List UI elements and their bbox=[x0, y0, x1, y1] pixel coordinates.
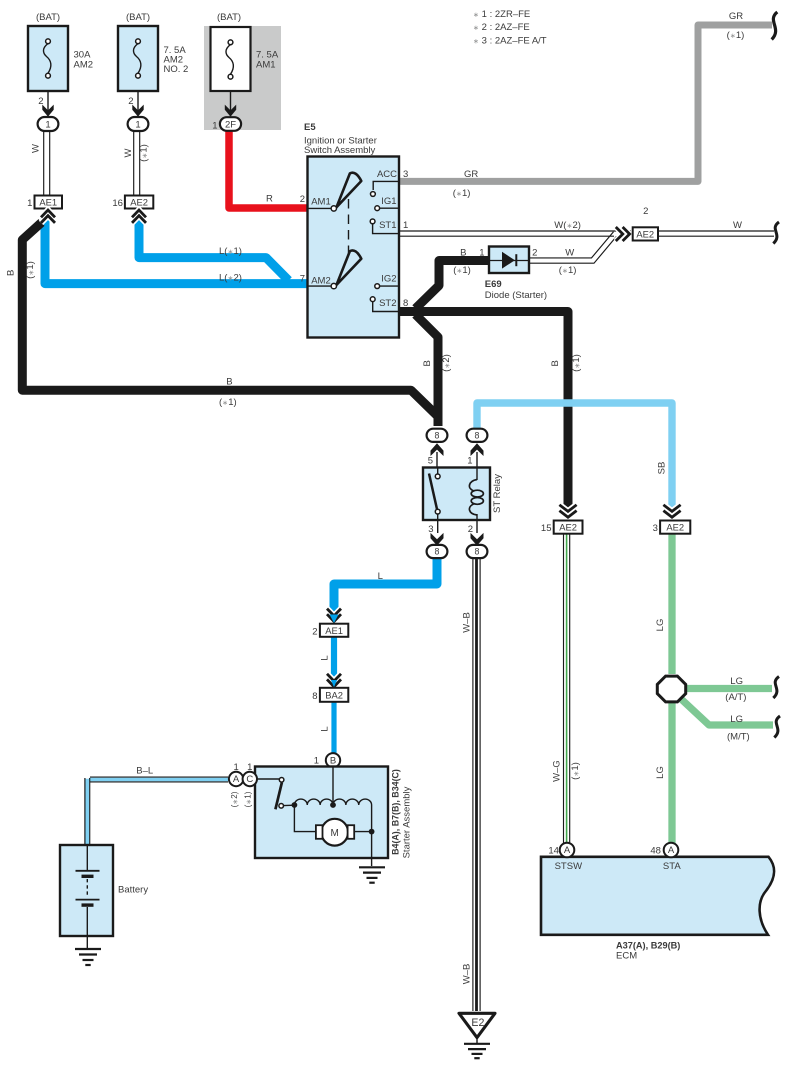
svg-text:8: 8 bbox=[435, 547, 440, 557]
svg-text:E5: E5 bbox=[304, 122, 316, 133]
svg-text:AM1: AM1 bbox=[256, 60, 276, 71]
svg-text:W: W bbox=[733, 220, 742, 231]
svg-text:AM2: AM2 bbox=[74, 60, 94, 71]
svg-text:M: M bbox=[331, 828, 339, 839]
svg-text:W–G: W–G bbox=[551, 760, 562, 782]
svg-text:(∗1): (∗1) bbox=[559, 265, 577, 276]
svg-text:3: 3 bbox=[403, 169, 408, 180]
svg-text:AM2: AM2 bbox=[311, 276, 331, 287]
svg-text:16: 16 bbox=[112, 198, 123, 209]
svg-text:AE2: AE2 bbox=[666, 522, 684, 533]
svg-text:LG: LG bbox=[655, 619, 666, 632]
svg-text:(M/T): (M/T) bbox=[727, 732, 750, 743]
svg-text:7: 7 bbox=[300, 274, 305, 285]
svg-text:(∗1): (∗1) bbox=[727, 30, 745, 41]
svg-text:15: 15 bbox=[541, 523, 552, 534]
svg-text:2: 2 bbox=[643, 206, 648, 217]
svg-text:(∗1): (∗1) bbox=[571, 354, 582, 372]
svg-text:1: 1 bbox=[314, 755, 319, 766]
svg-text:2F: 2F bbox=[225, 119, 236, 130]
svg-text:∗ 1 : 2ZR–FE: ∗ 1 : 2ZR–FE bbox=[473, 9, 530, 20]
svg-text:(∗1): (∗1) bbox=[453, 188, 471, 199]
svg-text:AE2: AE2 bbox=[130, 196, 148, 207]
svg-text:W–B: W–B bbox=[462, 612, 473, 633]
svg-text:2: 2 bbox=[128, 96, 133, 107]
svg-text:STA: STA bbox=[663, 861, 681, 872]
svg-text:ST1: ST1 bbox=[379, 220, 396, 231]
svg-text:8: 8 bbox=[435, 430, 440, 440]
svg-text:W: W bbox=[31, 144, 42, 153]
svg-text:(∗1): (∗1) bbox=[219, 397, 237, 408]
svg-text:(BAT): (BAT) bbox=[36, 12, 60, 23]
svg-text:AE1: AE1 bbox=[39, 196, 57, 207]
svg-text:5: 5 bbox=[428, 456, 433, 467]
svg-text:SB: SB bbox=[657, 462, 668, 475]
svg-text:L: L bbox=[378, 571, 383, 582]
svg-text:A37(A), B29(B): A37(A), B29(B) bbox=[616, 940, 680, 950]
svg-text:BA2: BA2 bbox=[325, 690, 343, 701]
svg-text:B: B bbox=[422, 360, 433, 366]
svg-text:W(∗2): W(∗2) bbox=[554, 220, 581, 231]
svg-text:B–L: B–L bbox=[136, 765, 153, 776]
svg-text:48: 48 bbox=[650, 845, 661, 856]
svg-text:ST2: ST2 bbox=[379, 298, 396, 309]
svg-text:(∗1): (∗1) bbox=[244, 791, 253, 807]
svg-text:8: 8 bbox=[475, 547, 480, 557]
svg-text:(∗2): (∗2) bbox=[230, 791, 239, 807]
svg-text:AE2: AE2 bbox=[636, 228, 654, 239]
svg-text:(∗1): (∗1) bbox=[25, 261, 36, 279]
svg-text:W–B: W–B bbox=[462, 964, 473, 985]
svg-text:1: 1 bbox=[479, 248, 484, 259]
svg-text:L: L bbox=[319, 655, 330, 660]
svg-text:C: C bbox=[246, 774, 253, 785]
svg-text:GR: GR bbox=[464, 169, 478, 180]
svg-text:L(∗2): L(∗2) bbox=[219, 272, 242, 283]
svg-text:Diode (Starter): Diode (Starter) bbox=[485, 290, 547, 301]
svg-text:IG1: IG1 bbox=[381, 196, 396, 207]
svg-text:L(∗1): L(∗1) bbox=[219, 246, 242, 257]
svg-text:2: 2 bbox=[38, 96, 43, 107]
svg-text:Battery: Battery bbox=[118, 884, 148, 895]
svg-text:(∗2): (∗2) bbox=[441, 354, 452, 372]
svg-text:1: 1 bbox=[247, 762, 252, 773]
svg-text:GR: GR bbox=[729, 11, 743, 22]
svg-text:∗ 2 : 2AZ–FE: ∗ 2 : 2AZ–FE bbox=[473, 22, 530, 33]
svg-text:2: 2 bbox=[532, 248, 537, 259]
svg-text:3: 3 bbox=[428, 524, 433, 535]
svg-text:B: B bbox=[550, 360, 561, 366]
svg-text:B: B bbox=[5, 270, 16, 276]
svg-text:8: 8 bbox=[312, 691, 317, 702]
svg-text:2: 2 bbox=[300, 194, 305, 205]
svg-text:ECM: ECM bbox=[616, 950, 637, 961]
svg-text:W: W bbox=[565, 248, 574, 259]
svg-text:A: A bbox=[233, 774, 240, 785]
svg-text:(∗1): (∗1) bbox=[139, 144, 150, 162]
svg-text:ACC: ACC bbox=[377, 169, 397, 180]
svg-text:(A/T): (A/T) bbox=[725, 692, 746, 703]
svg-text:1: 1 bbox=[135, 119, 140, 130]
svg-text:∗ 3 : 2AZ–FE A/T: ∗ 3 : 2AZ–FE A/T bbox=[473, 35, 547, 46]
svg-text:Switch Assembly: Switch Assembly bbox=[304, 145, 376, 156]
svg-text:R: R bbox=[266, 194, 273, 205]
svg-text:IG2: IG2 bbox=[381, 273, 396, 284]
svg-text:8: 8 bbox=[403, 298, 408, 309]
svg-text:1: 1 bbox=[27, 198, 32, 209]
svg-text:1: 1 bbox=[403, 220, 408, 231]
svg-text:(∗1): (∗1) bbox=[570, 762, 581, 780]
svg-text:NO. 2: NO. 2 bbox=[164, 64, 189, 75]
svg-text:L: L bbox=[319, 726, 330, 731]
svg-text:14: 14 bbox=[548, 845, 559, 856]
svg-text:LG: LG bbox=[730, 714, 743, 725]
svg-text:2: 2 bbox=[468, 524, 473, 535]
svg-text:1: 1 bbox=[45, 119, 50, 130]
svg-text:E69: E69 bbox=[485, 279, 502, 290]
svg-text:AM1: AM1 bbox=[311, 197, 331, 208]
svg-text:1: 1 bbox=[467, 456, 472, 467]
svg-text:STSW: STSW bbox=[555, 861, 582, 872]
svg-text:B4(A), B7(B), B34(C): B4(A), B7(B), B34(C) bbox=[391, 769, 401, 855]
svg-text:LG: LG bbox=[655, 766, 666, 779]
svg-text:E2: E2 bbox=[471, 1017, 484, 1029]
svg-text:ST Relay: ST Relay bbox=[492, 474, 503, 513]
svg-text:W: W bbox=[123, 148, 134, 157]
svg-text:A: A bbox=[668, 845, 675, 856]
svg-text:AE2: AE2 bbox=[559, 522, 577, 533]
svg-text:1: 1 bbox=[233, 762, 238, 773]
svg-text:A: A bbox=[564, 845, 571, 856]
svg-text:B: B bbox=[330, 756, 336, 767]
svg-text:8: 8 bbox=[475, 430, 480, 440]
svg-text:2: 2 bbox=[312, 627, 317, 638]
svg-text:AE1: AE1 bbox=[325, 625, 343, 636]
svg-text:(BAT): (BAT) bbox=[126, 12, 150, 23]
svg-text:(BAT): (BAT) bbox=[217, 12, 241, 23]
svg-text:Starter Assembly: Starter Assembly bbox=[401, 786, 412, 858]
svg-text:B: B bbox=[460, 248, 466, 259]
svg-text:(∗1): (∗1) bbox=[453, 265, 471, 276]
svg-text:B: B bbox=[226, 376, 232, 387]
svg-text:1: 1 bbox=[212, 121, 217, 132]
svg-text:LG: LG bbox=[730, 676, 743, 687]
svg-text:3: 3 bbox=[653, 523, 658, 534]
